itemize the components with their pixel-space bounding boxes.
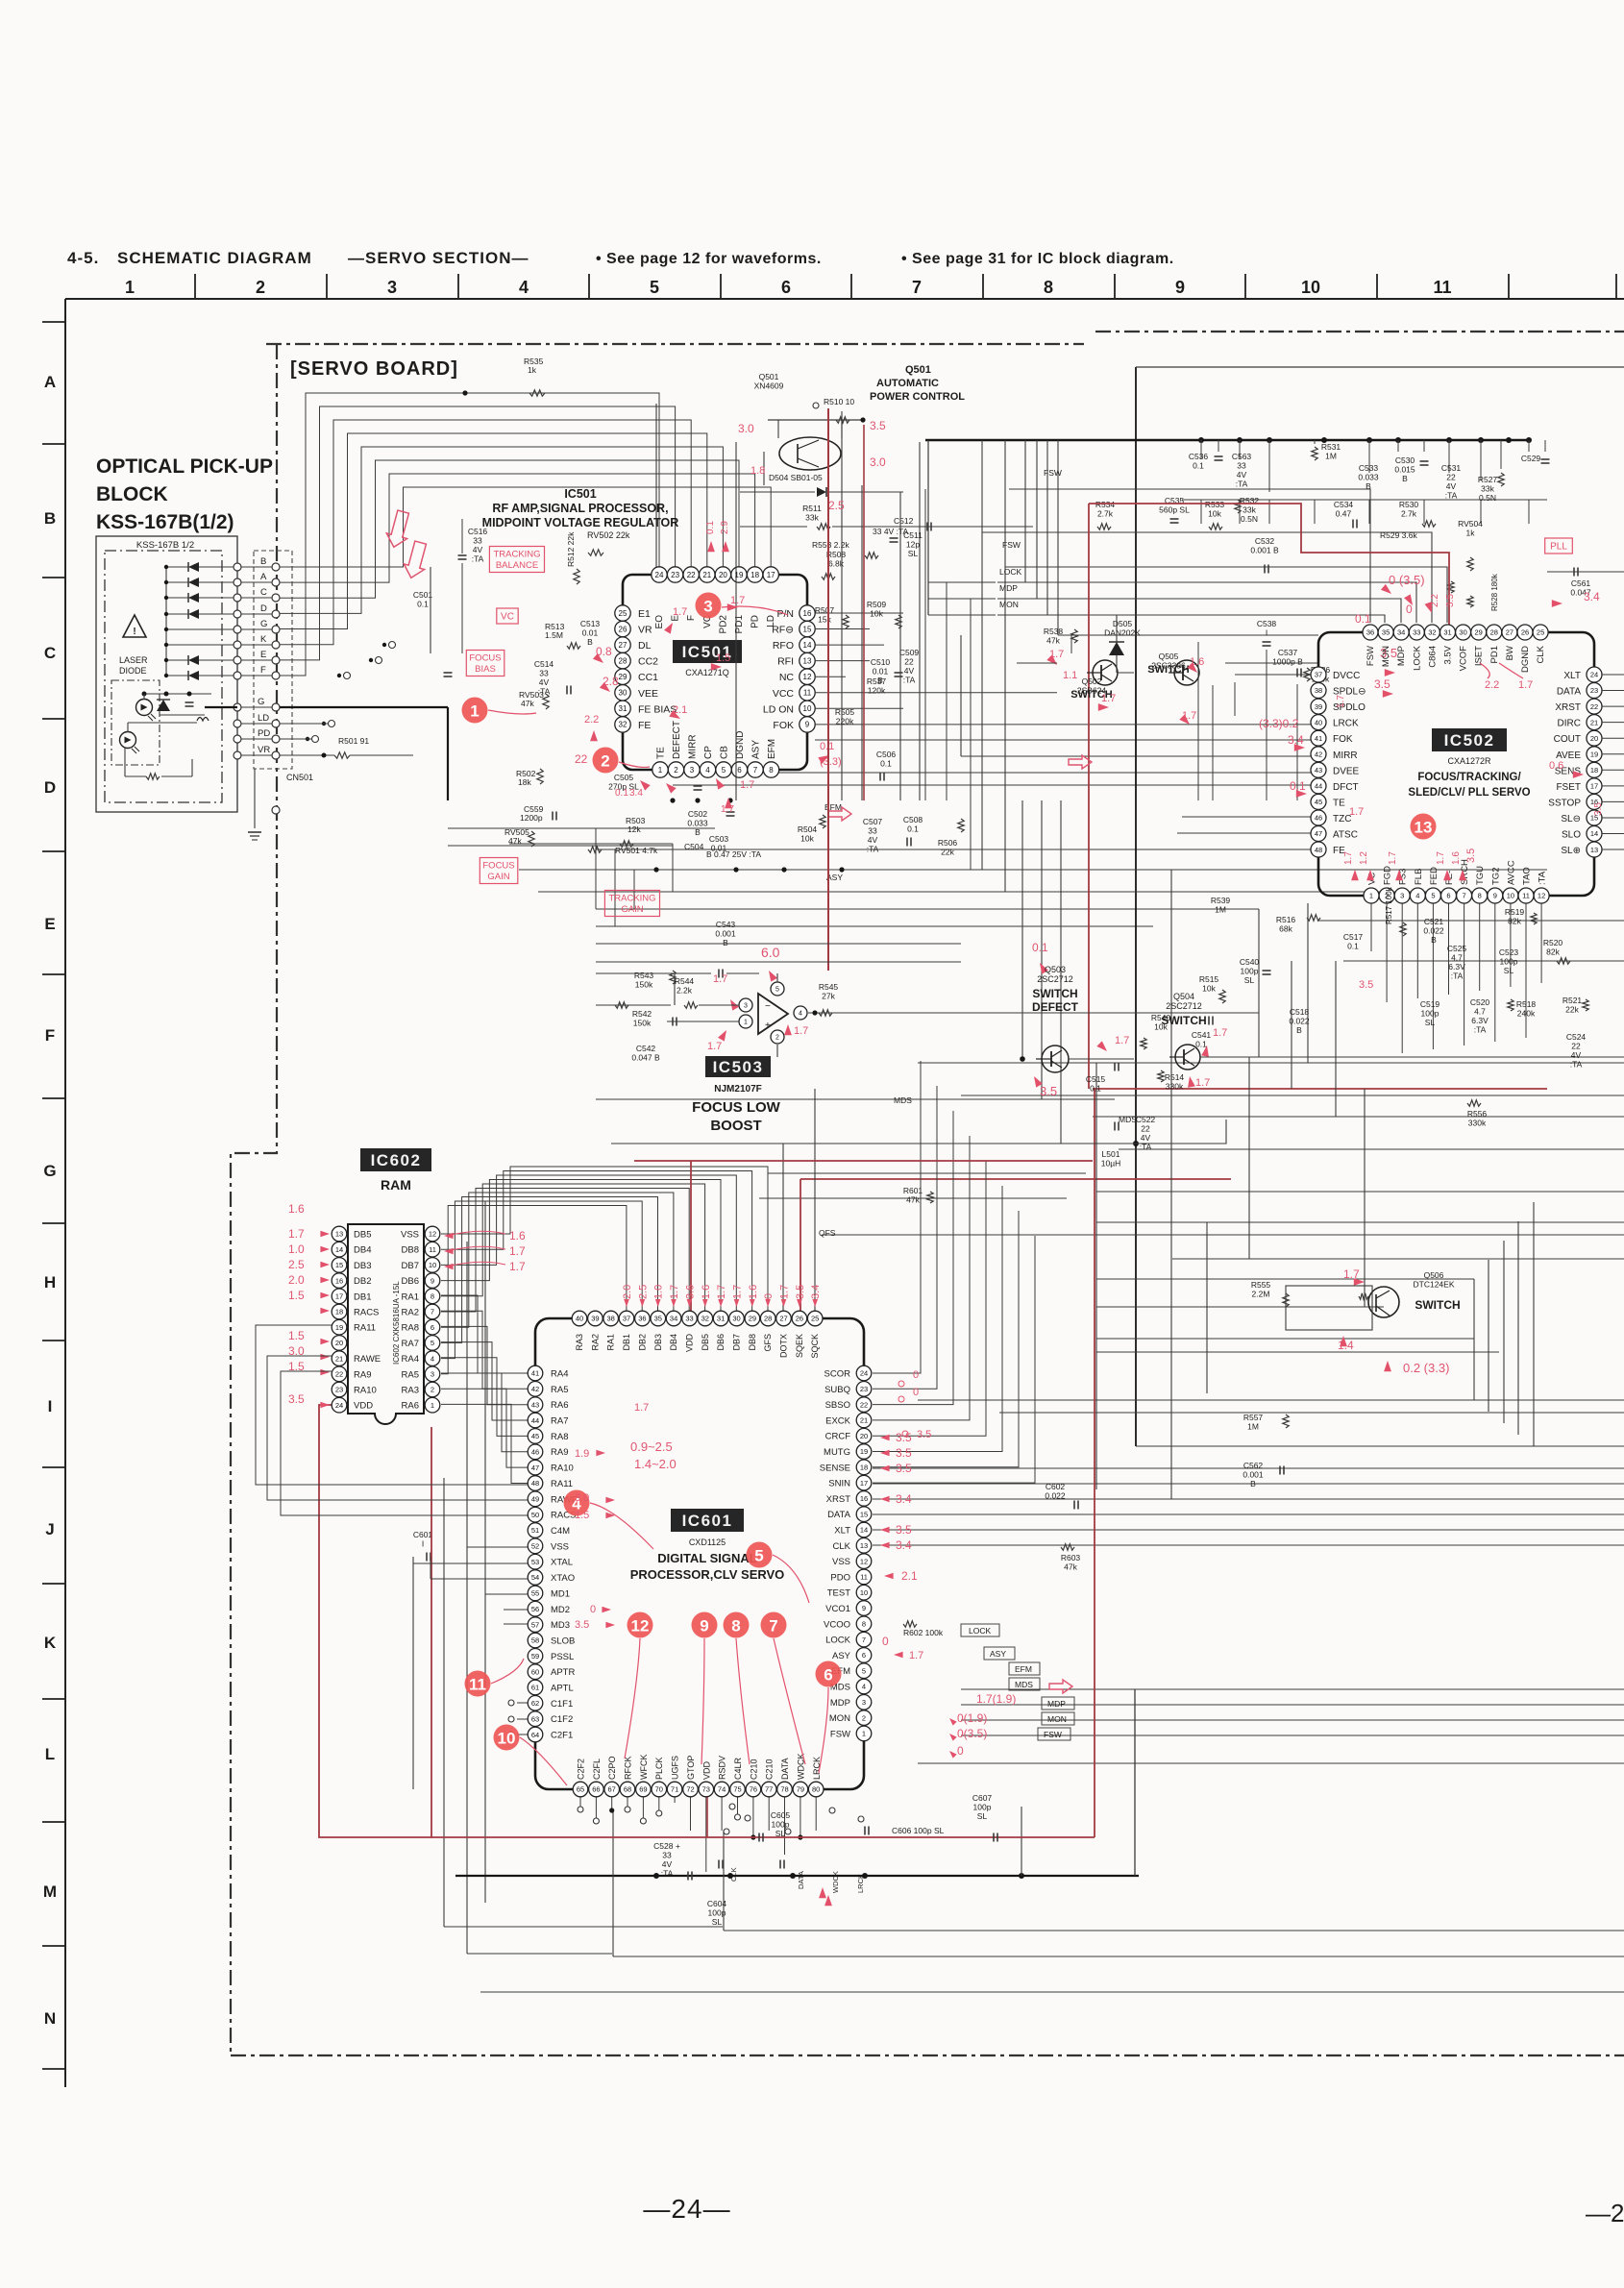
svg-text:3.4: 3.4 — [896, 1492, 912, 1506]
svg-text:SENSE: SENSE — [820, 1463, 850, 1473]
svg-text:5: 5 — [1431, 892, 1435, 900]
svg-text:F: F — [45, 1026, 55, 1045]
svg-text:22: 22 — [687, 571, 696, 579]
svg-text:35: 35 — [1382, 628, 1390, 637]
svg-text:1.6: 1.6 — [701, 1285, 712, 1299]
svg-text:C501: C501 — [413, 590, 433, 600]
svg-text:37: 37 — [623, 1315, 630, 1323]
svg-text:K: K — [260, 634, 267, 645]
svg-text:• See page 31 for IC blo: • See page 31 for IC block diagram. — [901, 251, 1174, 267]
svg-text:3.5: 3.5 — [1465, 849, 1477, 863]
svg-text:SNIN: SNIN — [828, 1479, 850, 1489]
svg-text:18: 18 — [860, 1464, 868, 1472]
svg-text:SL: SL — [908, 549, 919, 558]
svg-text:3.5: 3.5 — [1040, 1084, 1057, 1098]
svg-text:MON: MON — [829, 1713, 850, 1724]
svg-text:POWER CONTROL: POWER CONTROL — [870, 391, 965, 403]
svg-text:4: 4 — [431, 1354, 434, 1363]
svg-text:22k: 22k — [1565, 1005, 1579, 1015]
svg-text:12: 12 — [803, 673, 812, 681]
svg-text:35: 35 — [654, 1315, 662, 1323]
svg-text:TE: TE — [656, 747, 667, 759]
svg-text:1.7: 1.7 — [673, 606, 687, 618]
svg-text:18: 18 — [750, 571, 759, 579]
svg-text:0.001: 0.001 — [715, 929, 736, 939]
svg-text:R516: R516 — [1276, 915, 1296, 924]
svg-text:1.7: 1.7 — [509, 1260, 526, 1273]
svg-text:23: 23 — [671, 571, 679, 579]
svg-text:64: 64 — [531, 1731, 539, 1739]
svg-text:20: 20 — [1590, 734, 1598, 743]
svg-text:12: 12 — [631, 1617, 650, 1636]
svg-text:DB3: DB3 — [653, 1334, 663, 1351]
svg-text:100p: 100p — [772, 1820, 790, 1830]
svg-text:B 0.47 25V :TA: B 0.47 25V :TA — [706, 849, 761, 859]
svg-text:2: 2 — [775, 1035, 779, 1042]
svg-text:3: 3 — [1400, 892, 1404, 900]
svg-text:22: 22 — [1141, 1124, 1150, 1134]
svg-text::TA: :TA — [1570, 1060, 1583, 1070]
svg-text:VCOO: VCOO — [824, 1619, 850, 1630]
svg-text:0: 0 — [1406, 603, 1413, 616]
svg-text:25: 25 — [619, 609, 627, 618]
svg-text:RFCK: RFCK — [624, 1757, 633, 1781]
svg-text:LOCK: LOCK — [825, 1636, 851, 1646]
svg-text:SL: SL — [977, 1811, 988, 1821]
svg-text:82k: 82k — [1546, 947, 1560, 957]
svg-text:—2: —2 — [1586, 2199, 1624, 2227]
svg-text:[SERVO BOARD]: [SERVO BOARD] — [290, 358, 458, 380]
svg-text:2: 2 — [862, 1713, 866, 1722]
svg-text:R511: R511 — [802, 504, 822, 513]
svg-text:47k: 47k — [1046, 636, 1060, 646]
svg-text:RA9: RA9 — [551, 1447, 568, 1458]
svg-text:PD: PD — [750, 615, 761, 628]
svg-text:20: 20 — [719, 571, 727, 579]
svg-text:3.5: 3.5 — [1359, 979, 1373, 991]
svg-text:LRCK: LRCK — [856, 1874, 865, 1893]
svg-text:6: 6 — [781, 278, 791, 297]
svg-text:2.0: 2.0 — [622, 1285, 633, 1299]
svg-text:EFM: EFM — [767, 739, 777, 759]
svg-text:R528 180k: R528 180k — [1490, 573, 1499, 611]
svg-text:1.7: 1.7 — [288, 1227, 305, 1241]
svg-text:33k: 33k — [805, 513, 819, 523]
svg-text:3.5: 3.5 — [896, 1431, 912, 1444]
svg-text:1.7: 1.7 — [1388, 851, 1398, 865]
svg-text:28: 28 — [1490, 628, 1498, 637]
svg-text:10k: 10k — [800, 834, 814, 844]
svg-text:R553 2.2k: R553 2.2k — [812, 540, 849, 550]
svg-text:17: 17 — [860, 1479, 868, 1488]
svg-text::TA: :TA — [903, 676, 916, 685]
svg-text:1.7: 1.7 — [509, 1244, 526, 1258]
svg-text:12k: 12k — [627, 824, 641, 834]
svg-text:VDD: VDD — [354, 1401, 373, 1412]
svg-text:RA5: RA5 — [551, 1385, 568, 1395]
svg-text:23: 23 — [1590, 686, 1598, 695]
svg-text:2.1: 2.1 — [901, 1569, 918, 1583]
svg-text:C512: C512 — [894, 516, 914, 526]
svg-text:1.7: 1.7 — [716, 1285, 727, 1299]
svg-text:100p: 100p — [1421, 1009, 1439, 1019]
svg-text:4V: 4V — [662, 1859, 673, 1869]
svg-text:1k: 1k — [528, 365, 537, 375]
svg-text:45: 45 — [531, 1432, 539, 1440]
svg-text:3.5V: 3.5V — [1443, 645, 1454, 664]
svg-text:5: 5 — [431, 1339, 434, 1347]
svg-text:RA8: RA8 — [402, 1323, 419, 1334]
svg-text:C506: C506 — [876, 750, 897, 759]
svg-text:RA7: RA7 — [551, 1416, 568, 1427]
svg-text:ISET: ISET — [1474, 646, 1485, 666]
svg-text:TRACKING: TRACKING — [608, 894, 655, 904]
svg-text:18: 18 — [1590, 766, 1598, 775]
svg-text:1.5: 1.5 — [575, 1510, 589, 1521]
svg-text:C532: C532 — [1255, 536, 1275, 546]
svg-text:EO: EO — [654, 615, 665, 629]
svg-text:CB: CB — [720, 746, 730, 759]
svg-text:18: 18 — [335, 1308, 343, 1316]
svg-text:RA10: RA10 — [551, 1464, 574, 1474]
svg-text:21: 21 — [702, 571, 711, 579]
svg-text:4V: 4V — [539, 677, 550, 687]
svg-text:FSW: FSW — [1366, 646, 1376, 666]
svg-text:MON: MON — [1047, 1714, 1067, 1724]
svg-text:VC: VC — [501, 612, 514, 623]
svg-text::TA: :TA — [867, 845, 879, 854]
svg-text:8: 8 — [862, 1620, 866, 1629]
svg-text:1.7: 1.7 — [1349, 806, 1364, 818]
svg-text:MDP: MDP — [999, 583, 1018, 593]
svg-text:RA11: RA11 — [354, 1323, 376, 1334]
svg-text:FE BIAS: FE BIAS — [638, 703, 677, 715]
svg-text:21: 21 — [860, 1416, 868, 1425]
svg-text:11: 11 — [803, 689, 812, 698]
svg-text:SL: SL — [775, 1829, 786, 1838]
svg-text::TA: :TA — [1445, 491, 1458, 501]
svg-text:7: 7 — [862, 1636, 866, 1644]
svg-text:10k: 10k — [1208, 509, 1221, 519]
svg-text:33: 33 — [685, 1315, 693, 1323]
svg-text:13: 13 — [860, 1541, 868, 1550]
svg-text:43: 43 — [531, 1400, 539, 1409]
svg-text:RA6: RA6 — [551, 1400, 568, 1411]
svg-text:FSW: FSW — [830, 1729, 850, 1739]
svg-text:0.015: 0.015 — [1394, 465, 1415, 475]
svg-text::TA: :TA — [1140, 1143, 1152, 1152]
svg-text:22: 22 — [1571, 1042, 1581, 1051]
svg-text:1: 1 — [431, 1401, 434, 1410]
svg-text:C561: C561 — [1571, 578, 1591, 588]
svg-text:G: G — [43, 1162, 56, 1180]
svg-text:DB2: DB2 — [637, 1334, 647, 1351]
svg-text:MD1: MD1 — [551, 1588, 570, 1599]
svg-text:47k: 47k — [906, 1195, 920, 1205]
svg-text:47: 47 — [1315, 829, 1322, 838]
svg-text:20: 20 — [335, 1339, 343, 1347]
svg-text:VEE: VEE — [638, 688, 658, 700]
svg-text:3.5: 3.5 — [1445, 594, 1456, 607]
svg-text:FE: FE — [638, 720, 651, 731]
svg-text:0.01: 0.01 — [582, 628, 599, 638]
svg-text:TE: TE — [1333, 798, 1345, 808]
svg-text:0: 0 — [913, 1369, 919, 1381]
svg-text:E: E — [260, 650, 266, 660]
svg-text:2.2k: 2.2k — [677, 986, 693, 996]
svg-text:8: 8 — [769, 766, 774, 775]
svg-text:10: 10 — [498, 1730, 516, 1748]
svg-text:62: 62 — [531, 1699, 539, 1708]
svg-text:R501 91: R501 91 — [338, 736, 369, 746]
svg-text:0.1: 0.1 — [705, 521, 716, 534]
svg-text:0.1: 0.1 — [907, 824, 919, 834]
svg-text:CXA1272R: CXA1272R — [1447, 756, 1491, 766]
svg-text:MON: MON — [1381, 646, 1391, 667]
svg-text:BOOST: BOOST — [710, 1118, 761, 1134]
svg-text:Q502: Q502 — [1082, 677, 1102, 686]
svg-text:18k: 18k — [518, 777, 531, 787]
svg-text:1.7: 1.7 — [634, 1402, 649, 1414]
svg-text:FOK: FOK — [773, 720, 794, 731]
svg-text:SSTOP: SSTOP — [1548, 798, 1581, 808]
svg-text:C541: C541 — [1192, 1030, 1212, 1040]
svg-text:Q504: Q504 — [1173, 992, 1194, 1001]
svg-text:30: 30 — [732, 1315, 740, 1323]
svg-text:B: B — [260, 556, 266, 567]
svg-text:56: 56 — [531, 1605, 539, 1613]
svg-text:7: 7 — [431, 1308, 434, 1316]
svg-text:N: N — [44, 2009, 56, 2028]
svg-text:XLT: XLT — [834, 1526, 850, 1537]
svg-text::TA: :TA — [1451, 972, 1464, 981]
svg-text:67: 67 — [608, 1785, 616, 1794]
svg-text:C2F2: C2F2 — [577, 1759, 586, 1780]
svg-text:DB4: DB4 — [354, 1245, 371, 1256]
svg-text:XTAL: XTAL — [551, 1558, 573, 1568]
svg-text:1.7: 1.7 — [1213, 1027, 1227, 1039]
svg-text:3: 3 — [690, 766, 695, 775]
svg-text:10k: 10k — [1154, 1022, 1168, 1032]
svg-text:B: B — [1431, 935, 1437, 945]
svg-text:32: 32 — [1428, 628, 1436, 637]
svg-text:26: 26 — [1521, 628, 1529, 637]
svg-text:RFI: RFI — [777, 656, 794, 668]
svg-text:DB5: DB5 — [701, 1334, 710, 1351]
svg-text:1k: 1k — [1466, 529, 1476, 538]
svg-text:DB8: DB8 — [748, 1334, 757, 1351]
svg-text:SBSO: SBSO — [825, 1400, 850, 1411]
svg-text:2: 2 — [431, 1386, 434, 1394]
svg-text::TA: :TA — [661, 1869, 674, 1879]
svg-text:MDP: MDP — [1047, 1699, 1066, 1709]
svg-text:CXA1271Q: CXA1271Q — [685, 668, 729, 677]
svg-text:53: 53 — [531, 1558, 539, 1566]
svg-text:45: 45 — [1315, 798, 1322, 806]
svg-text:B: B — [44, 509, 56, 528]
svg-text:APTR: APTR — [551, 1667, 575, 1678]
svg-text:RA10: RA10 — [354, 1386, 377, 1396]
svg-text:RA6: RA6 — [402, 1401, 419, 1412]
svg-text:0.1: 0.1 — [1193, 461, 1204, 471]
svg-text:ASY: ASY — [751, 740, 762, 759]
svg-text:48: 48 — [531, 1479, 539, 1488]
svg-text:9: 9 — [700, 1617, 708, 1636]
svg-text:13: 13 — [1415, 819, 1433, 837]
svg-text:R529 3.6k: R529 3.6k — [1380, 530, 1417, 540]
svg-text:R515: R515 — [1199, 974, 1219, 984]
svg-text:0.1: 0.1 — [615, 788, 628, 799]
svg-text:100p: 100p — [708, 1908, 726, 1918]
svg-text:C524: C524 — [1566, 1032, 1587, 1042]
svg-text:C210: C210 — [765, 1759, 775, 1780]
svg-text:13: 13 — [1590, 846, 1598, 854]
svg-text:31: 31 — [717, 1315, 725, 1323]
svg-text:22k: 22k — [941, 848, 954, 857]
svg-text:RACS: RACS — [354, 1308, 379, 1318]
svg-text:C538: C538 — [1257, 619, 1277, 628]
svg-text:C514: C514 — [534, 659, 554, 669]
svg-text:CRCF: CRCF — [825, 1432, 851, 1442]
svg-text:22: 22 — [1446, 473, 1456, 482]
svg-text:RV501 4.7k: RV501 4.7k — [615, 846, 658, 855]
svg-text:NJM2107F: NJM2107F — [714, 1084, 761, 1095]
svg-text:C540: C540 — [1240, 957, 1260, 967]
svg-text::TA: :TA — [1538, 871, 1548, 885]
svg-text:49: 49 — [531, 1495, 539, 1504]
svg-text:5: 5 — [722, 766, 726, 775]
svg-text:30: 30 — [619, 689, 627, 698]
svg-text:6: 6 — [737, 766, 742, 775]
svg-text:C533: C533 — [1359, 463, 1379, 473]
svg-text:EFM: EFM — [1015, 1664, 1032, 1674]
svg-text:2: 2 — [601, 752, 609, 771]
svg-text:12: 12 — [1538, 892, 1545, 900]
svg-text:0 (3.5): 0 (3.5) — [1389, 573, 1425, 587]
svg-text:4: 4 — [862, 1683, 866, 1691]
svg-text:3: 3 — [744, 1003, 748, 1010]
svg-text:RFO: RFO — [773, 640, 794, 652]
svg-text:CLK: CLK — [1536, 645, 1546, 663]
svg-text:2.2: 2.2 — [1485, 679, 1499, 691]
svg-text:C1F1: C1F1 — [551, 1699, 573, 1710]
svg-text:27: 27 — [779, 1315, 787, 1323]
svg-text:C4M: C4M — [551, 1526, 570, 1537]
svg-text:FOCUS: FOCUS — [482, 861, 514, 872]
svg-text:1.7: 1.7 — [779, 1285, 791, 1299]
svg-text:C521: C521 — [1424, 917, 1444, 926]
svg-text:DEFECT: DEFECT — [1032, 1000, 1079, 1014]
svg-text:R602 100k: R602 100k — [903, 1628, 944, 1637]
svg-text:SL: SL — [1504, 966, 1514, 975]
svg-text:3.0: 3.0 — [870, 455, 886, 469]
svg-text:1.7: 1.7 — [1336, 695, 1346, 708]
svg-text:21: 21 — [335, 1354, 343, 1363]
svg-text:15: 15 — [860, 1510, 868, 1518]
svg-text:0.1: 0.1 — [1090, 1084, 1101, 1094]
svg-text:FSET: FSET — [1556, 782, 1581, 793]
svg-text:RA3: RA3 — [575, 1334, 584, 1351]
svg-text:C2F1: C2F1 — [551, 1731, 573, 1741]
svg-text:33: 33 — [662, 1851, 672, 1860]
svg-text:IC602: IC602 — [371, 1151, 422, 1169]
svg-text:DATA: DATA — [1557, 687, 1582, 698]
svg-text:Q503: Q503 — [1045, 965, 1066, 974]
svg-text:28: 28 — [619, 657, 627, 666]
svg-text:52: 52 — [531, 1542, 539, 1551]
svg-text:17: 17 — [767, 571, 775, 579]
svg-text:1.6: 1.6 — [1451, 851, 1462, 865]
svg-text:C537: C537 — [1278, 648, 1298, 657]
svg-text:41: 41 — [531, 1369, 539, 1378]
svg-text:14: 14 — [860, 1526, 868, 1535]
svg-text:LOCK: LOCK — [969, 1626, 991, 1636]
svg-text:1.1: 1.1 — [1063, 670, 1077, 681]
svg-text:22: 22 — [860, 1400, 868, 1409]
svg-text:0.01: 0.01 — [873, 667, 889, 677]
svg-text:36: 36 — [638, 1315, 646, 1323]
svg-text:60: 60 — [531, 1667, 539, 1676]
svg-text:47: 47 — [531, 1464, 539, 1472]
svg-text:12p: 12p — [906, 540, 920, 550]
svg-text:RF AMP,SIGNAL PROCESSOR,: RF AMP,SIGNAL PROCESSOR, — [492, 502, 668, 515]
svg-text:8: 8 — [1044, 278, 1053, 297]
svg-text:TEST: TEST — [827, 1588, 850, 1599]
svg-text:3.5: 3.5 — [896, 1523, 912, 1537]
svg-text:4V: 4V — [1571, 1050, 1582, 1060]
svg-text:19: 19 — [860, 1447, 868, 1456]
svg-text:4V: 4V — [868, 835, 878, 845]
svg-text:KSS-167B 1/2: KSS-167B 1/2 — [136, 540, 194, 551]
svg-text:0.033: 0.033 — [1358, 473, 1379, 482]
svg-text:1.7: 1.7 — [669, 1285, 680, 1299]
svg-text:DEFECT: DEFECT — [672, 721, 682, 759]
svg-text:PD1: PD1 — [1489, 646, 1500, 663]
svg-text:FOCUS: FOCUS — [469, 653, 501, 664]
svg-text:3.4: 3.4 — [1584, 590, 1600, 603]
svg-text:LRCK: LRCK — [1333, 719, 1359, 729]
svg-text:1.5: 1.5 — [288, 1329, 305, 1342]
svg-text:DATA: DATA — [780, 1758, 790, 1780]
svg-text:DB7: DB7 — [732, 1334, 742, 1351]
svg-text:16: 16 — [860, 1494, 868, 1503]
svg-text:FSW: FSW — [1044, 1730, 1062, 1739]
svg-text:FSW: FSW — [1044, 468, 1062, 478]
svg-text:33: 33 — [539, 669, 549, 678]
svg-text:• See page 12 for wavefor: • See page 12 for waveforms. — [596, 251, 822, 267]
svg-text:0: 0 — [957, 1744, 964, 1758]
svg-text:24: 24 — [655, 571, 664, 579]
svg-text:LOCK: LOCK — [999, 567, 1021, 577]
svg-text:2.2M: 2.2M — [1252, 1290, 1270, 1299]
svg-text:CXD1125: CXD1125 — [689, 1538, 726, 1547]
svg-text:RA1: RA1 — [402, 1292, 419, 1302]
svg-text:57: 57 — [531, 1620, 539, 1629]
svg-text:1.6: 1.6 — [288, 1202, 305, 1216]
svg-text:D504 SB01-05: D504 SB01-05 — [769, 473, 823, 482]
svg-text:SQCK: SQCK — [810, 1334, 820, 1359]
svg-text:FOCUS LOW: FOCUS LOW — [692, 1099, 780, 1116]
svg-text:ATSC: ATSC — [1333, 830, 1358, 841]
svg-text:IC503: IC503 — [713, 1058, 764, 1076]
svg-text:SL: SL — [1425, 1018, 1436, 1027]
svg-text:4.7: 4.7 — [1451, 953, 1463, 963]
svg-text:R555: R555 — [1251, 1280, 1271, 1290]
svg-text:3.5: 3.5 — [896, 1446, 912, 1460]
svg-text:42: 42 — [1315, 750, 1322, 759]
svg-text:RV502 22k: RV502 22k — [587, 530, 630, 540]
svg-text:EXCK: EXCK — [825, 1415, 851, 1426]
